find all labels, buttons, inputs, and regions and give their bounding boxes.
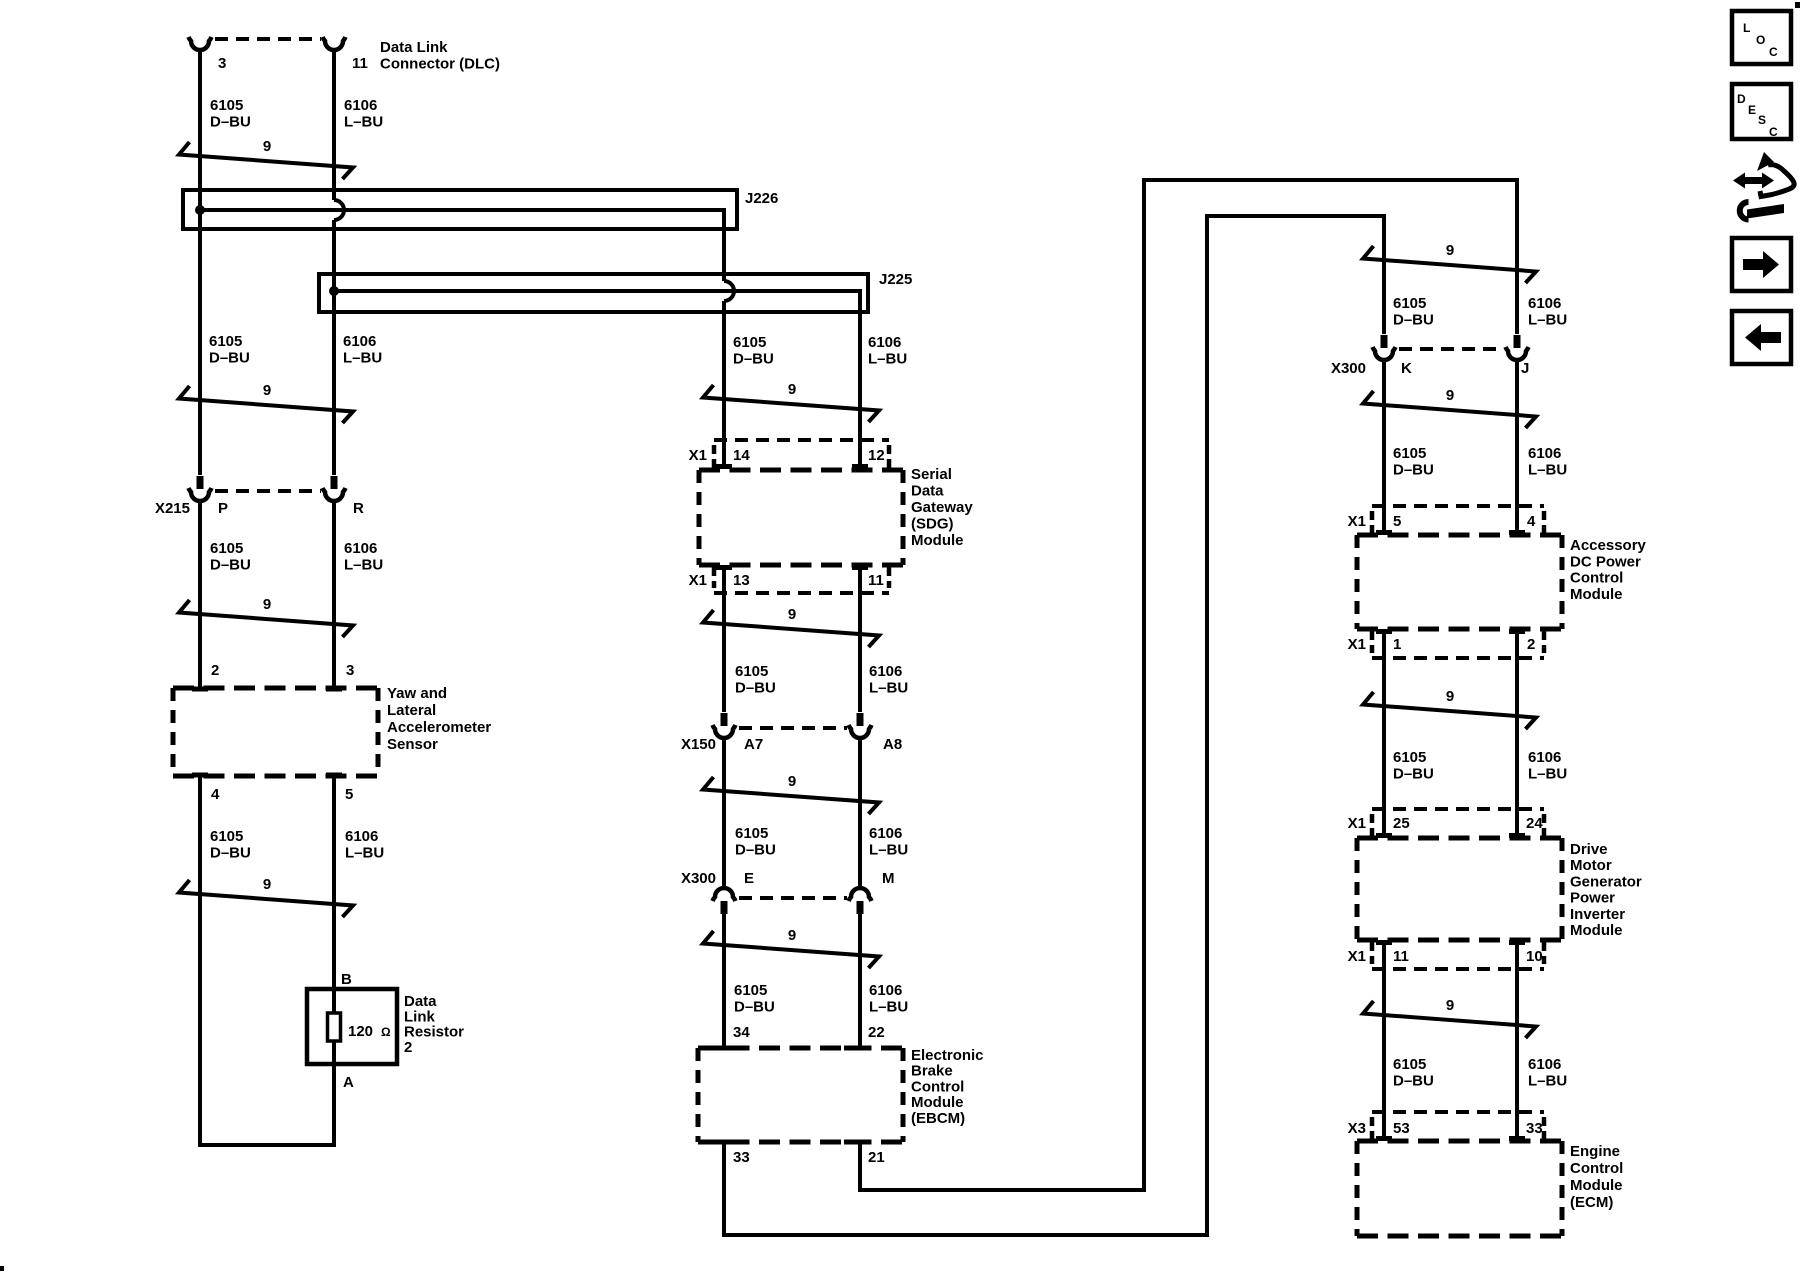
twisted pair symbol 9 (DLC leads) [179, 142, 353, 179]
connector X1 of Drive Motor Generator Power Inverter Module, pins 25 and 24 [1372, 807, 1544, 811]
svg-text:24: 24 [1526, 815, 1543, 832]
svg-text:9: 9 [1446, 387, 1454, 404]
resistor element 120 ohm [328, 1013, 341, 1041]
svg-text:4: 4 [1527, 513, 1536, 530]
svg-text:33: 33 [733, 1149, 750, 1166]
svg-text:E: E [744, 870, 754, 887]
svg-text:EngineControlModule(ECM): EngineControlModule(ECM) [1570, 1143, 1623, 1211]
icon button: back arrow [1732, 311, 1791, 364]
svg-text:X1: X1 [1348, 513, 1366, 530]
svg-text:11: 11 [352, 55, 368, 72]
svg-text:6106L–BU: 6106L–BU [1528, 749, 1567, 783]
svg-text:Ω: Ω [381, 1025, 391, 1039]
svg-text:6106L–BU: 6106L–BU [868, 334, 907, 368]
twisted pair symbol 9 (above resistor) [179, 880, 353, 917]
twisted pair symbol 9 (above SDG) [703, 385, 879, 422]
wire 6105 drop hops over J225 bus [724, 281, 734, 301]
svg-text:O: O [1756, 33, 1765, 47]
svg-text:DataLinkResistor2: DataLinkResistor2 [404, 993, 464, 1056]
svg-text:6106L–BU: 6106L–BU [344, 540, 383, 574]
svg-text:53: 53 [1393, 1120, 1410, 1137]
svg-text:9: 9 [788, 606, 796, 623]
svg-text:Data LinkConnector (DLC): Data LinkConnector (DLC) [380, 39, 500, 73]
svg-text:22: 22 [868, 1024, 885, 1041]
svg-text:6105D–BU: 6105D–BU [210, 540, 251, 574]
module: Serial Data Gateway (SDG) Module [699, 468, 903, 473]
wire 6106 L-BU from X300-M to EBCM pin 22 [858, 914, 862, 1046]
svg-text:6105D–BU: 6105D–BU [210, 828, 251, 862]
wire 6106 L-BU from SDG X1-11 to X150-A8 [858, 569, 862, 712]
svg-text:12: 12 [868, 447, 885, 464]
svg-text:A8: A8 [883, 736, 902, 753]
module: Drive Motor Generator Power Inverter Module [1357, 836, 1562, 841]
svg-text:P: P [218, 500, 228, 517]
wire 6106 L-BU from EBCM pin 21 up and over to right column [860, 180, 1517, 1190]
svg-text:9: 9 [1446, 997, 1454, 1014]
svg-text:J: J [1521, 360, 1529, 377]
connector X215 pins P and R [197, 476, 204, 489]
wire 6105 D-BU down to SDG X1-14 [722, 301, 726, 464]
svg-text:6106L–BU: 6106L–BU [1528, 1056, 1567, 1090]
svg-text:A: A [343, 1074, 354, 1091]
svg-text:1: 1 [1393, 636, 1401, 653]
wire 6105 D-BU from ADCPCM X1-1 to DMGPIM X1-25 [1382, 633, 1386, 836]
svg-text:9: 9 [788, 927, 796, 944]
svg-text:5: 5 [1393, 513, 1401, 530]
svg-text:Yaw andLateralAccelerometerSen: Yaw andLateralAccelerometerSensor [387, 685, 491, 753]
svg-text:ElectronicBrakeControlModule(E: ElectronicBrakeControlModule(EBCM) [911, 1047, 984, 1127]
svg-text:6106L–BU: 6106L–BU [869, 663, 908, 697]
splice pack J225 [319, 274, 868, 312]
J225 bus wire 6106 to middle column / SDG X1-12 [334, 291, 860, 464]
svg-text:34: 34 [733, 1024, 750, 1041]
svg-text:9: 9 [1446, 688, 1454, 705]
svg-text:J226: J226 [745, 190, 778, 207]
svg-text:2: 2 [1527, 636, 1535, 653]
svg-text:3: 3 [346, 662, 354, 679]
svg-text:SerialDataGateway(SDG)Module: SerialDataGateway(SDG)Module [911, 466, 973, 549]
svg-text:C: C [1769, 45, 1778, 59]
svg-text:DriveMotorGeneratorPowerInvert: DriveMotorGeneratorPowerInverterModule [1570, 841, 1642, 939]
svg-text:6105D–BU: 6105D–BU [1393, 749, 1434, 783]
svg-text:6106L–BU: 6106L–BU [1528, 295, 1567, 329]
wire through resistor [332, 991, 336, 1062]
wire 6106 hops over J226 bus [334, 200, 344, 220]
svg-text:6106L–BU: 6106L–BU [344, 97, 383, 131]
svg-text:AccessoryDC PowerControlModule: AccessoryDC PowerControlModule [1570, 537, 1647, 603]
svg-text:6105D–BU: 6105D–BU [1393, 445, 1434, 479]
svg-text:25: 25 [1393, 815, 1410, 832]
twisted pair symbol 9 (top right) [1363, 246, 1536, 283]
svg-text:9: 9 [1446, 242, 1454, 259]
wire 6106 L-BU from J226 to X215-R [332, 220, 336, 475]
svg-text:6106L–BU: 6106L–BU [869, 982, 908, 1016]
connector X150 pins A7 and A8 [721, 713, 728, 726]
svg-text:6105D–BU: 6105D–BU [209, 333, 250, 367]
svg-text:9: 9 [263, 876, 271, 893]
svg-text:6105D–BU: 6105D–BU [734, 982, 775, 1016]
page edge marks [1795, 2, 1800, 8]
wire 6105 D-BU from DLC pin 3 down to X215-P [198, 51, 202, 475]
icon: wiring repair tool (arrows and wrench) [1742, 177, 1766, 184]
svg-text:X300: X300 [681, 870, 716, 887]
resistor module box [307, 989, 397, 1064]
svg-text:6105D–BU: 6105D–BU [1393, 1056, 1434, 1090]
svg-text:4: 4 [211, 786, 220, 803]
svg-text:6105D–BU: 6105D–BU [1393, 295, 1434, 329]
wire 6106 L-BU from ADCPCM X1-2 to DMGPIM X1-24 [1515, 633, 1519, 836]
connector X1 of Drive Motor Generator Power Inverter Module, pins 11 and 10 [1372, 967, 1544, 971]
svg-text:X1: X1 [689, 572, 707, 589]
wire 6105 D-BU from SDG X1-13 to X150-A7 [722, 569, 726, 712]
svg-text:6106L–BU: 6106L–BU [345, 828, 384, 862]
svg-text:5: 5 [345, 786, 353, 803]
twisted pair symbol 9 (above EBCM) [703, 931, 879, 968]
wire 6106 L-BU from DMGPIM X1-10 to ECM X3-33 [1515, 944, 1519, 1137]
svg-text:B: B [341, 971, 352, 988]
wire 6105 D-BU from Yaw pin 4 loop to Data Link Resistor pin A [200, 776, 334, 1145]
svg-text:6106L–BU: 6106L–BU [1528, 445, 1567, 479]
svg-text:M: M [882, 870, 895, 887]
wire 6106 L-BU from X150-A8 to X300-M [858, 740, 862, 886]
svg-text:S: S [1758, 113, 1766, 127]
svg-text:X150: X150 [681, 736, 716, 753]
module: Accessory DC Power Control Module [1357, 533, 1562, 538]
svg-text:X300: X300 [1331, 360, 1366, 377]
icon button: forward arrow [1732, 238, 1791, 291]
svg-text:13: 13 [733, 572, 750, 589]
connector: Data Link Connector (DLC) pins 3 and 11 [189, 37, 212, 50]
wire 6105 D-BU from X300-K to ADCPCM X1-5 [1382, 362, 1386, 531]
wire 6106 L-BU from DLC pin 11 down to J226 hop [332, 51, 336, 200]
svg-text:2: 2 [211, 662, 219, 679]
svg-text:X1: X1 [1348, 815, 1366, 832]
svg-text:6105D–BU: 6105D–BU [210, 97, 251, 131]
svg-text:X1: X1 [689, 447, 707, 464]
svg-text:9: 9 [788, 381, 796, 398]
J226 bus wire 6105 to middle column [200, 210, 724, 281]
twisted pair symbol 9 (below X150) [703, 777, 879, 814]
connector X1 of SDG module, pins 13 and 11 [714, 591, 889, 595]
svg-text:11: 11 [1393, 948, 1409, 965]
wire 6105 D-BU from X300-E to EBCM pin 34 [722, 914, 726, 1046]
svg-text:3: 3 [218, 55, 226, 72]
twisted pair symbol 9 (above X215) [179, 386, 353, 423]
twisted pair symbol 9 (below X300 K/J) [1363, 391, 1536, 428]
svg-text:X1: X1 [1348, 948, 1366, 965]
svg-text:A7: A7 [744, 736, 763, 753]
svg-text:E: E [1748, 103, 1756, 117]
svg-text:9: 9 [263, 138, 271, 155]
svg-text:K: K [1401, 360, 1412, 377]
wire 6106 L-BU from X215-R to Yaw sensor pin 3 [332, 503, 336, 688]
connector X1 of Accessory DC Power Control Module, pins 1 and 2 [1372, 656, 1544, 660]
junction on 6105 at J226 [195, 205, 205, 215]
svg-text:C: C [1769, 125, 1778, 139]
svg-text:X1: X1 [1348, 636, 1366, 653]
svg-text:X215: X215 [155, 500, 190, 517]
svg-text:6105D–BU: 6105D–BU [733, 334, 774, 368]
connector X1 of SDG module, pins 14 and 12 [714, 438, 889, 442]
svg-text:14: 14 [733, 447, 750, 464]
svg-text:33: 33 [1526, 1120, 1543, 1137]
svg-text:6106L–BU: 6106L–BU [869, 825, 908, 859]
svg-text:R: R [353, 500, 364, 517]
svg-text:J225: J225 [879, 271, 912, 288]
wire 6105 D-BU from DMGPIM X1-11 to ECM X3-53 [1382, 944, 1386, 1137]
svg-text:120: 120 [348, 1023, 373, 1040]
svg-text:X3: X3 [1348, 1120, 1366, 1137]
twisted pair symbol 9 (below DMGPIM) [1363, 1001, 1536, 1038]
connector X3 of Engine Control Module, pins 53 and 33 [1372, 1110, 1544, 1114]
wire 6106 L-BU from Yaw pin 5 to Data Link Resistor pin B [332, 776, 336, 989]
svg-text:9: 9 [263, 382, 271, 399]
wire 6105 D-BU from X215-P to Yaw sensor pin 2 [198, 503, 202, 688]
junction on 6106 at J225 [329, 286, 339, 296]
svg-text:11: 11 [868, 572, 884, 589]
svg-text:10: 10 [1526, 948, 1543, 965]
twisted pair symbol 9 (above Yaw sensor) [179, 600, 353, 637]
svg-text:D: D [1737, 92, 1746, 106]
svg-text:21: 21 [868, 1149, 885, 1166]
icon button DESC [1732, 84, 1791, 139]
wire 6106 L-BU from X300-J to ADCPCM X1-4 [1515, 362, 1519, 531]
svg-text:9: 9 [788, 773, 796, 790]
wire 6105 D-BU from X150-A7 to X300-E [722, 740, 726, 886]
svg-text:L: L [1743, 21, 1750, 35]
twisted pair symbol 9 (below ADCPCM) [1363, 692, 1536, 729]
svg-text:9: 9 [263, 596, 271, 613]
svg-text:6105D–BU: 6105D–BU [735, 663, 776, 697]
twisted pair symbol 9 (below SDG) [703, 610, 879, 647]
svg-text:6106L–BU: 6106L–BU [343, 333, 382, 367]
splice pack J226 [183, 190, 737, 229]
wire 6105 D-BU from EBCM pin 33 up and over to right column [724, 216, 1384, 1235]
connector X300 pins K and J [1381, 335, 1388, 348]
module: Engine Control Module (ECM) [1357, 1139, 1562, 1144]
connector X1 of Accessory DC Power Control Module, pins 5 and 4 [1372, 504, 1544, 508]
icon button LOC [1732, 11, 1791, 64]
svg-text:6105D–BU: 6105D–BU [735, 825, 776, 859]
